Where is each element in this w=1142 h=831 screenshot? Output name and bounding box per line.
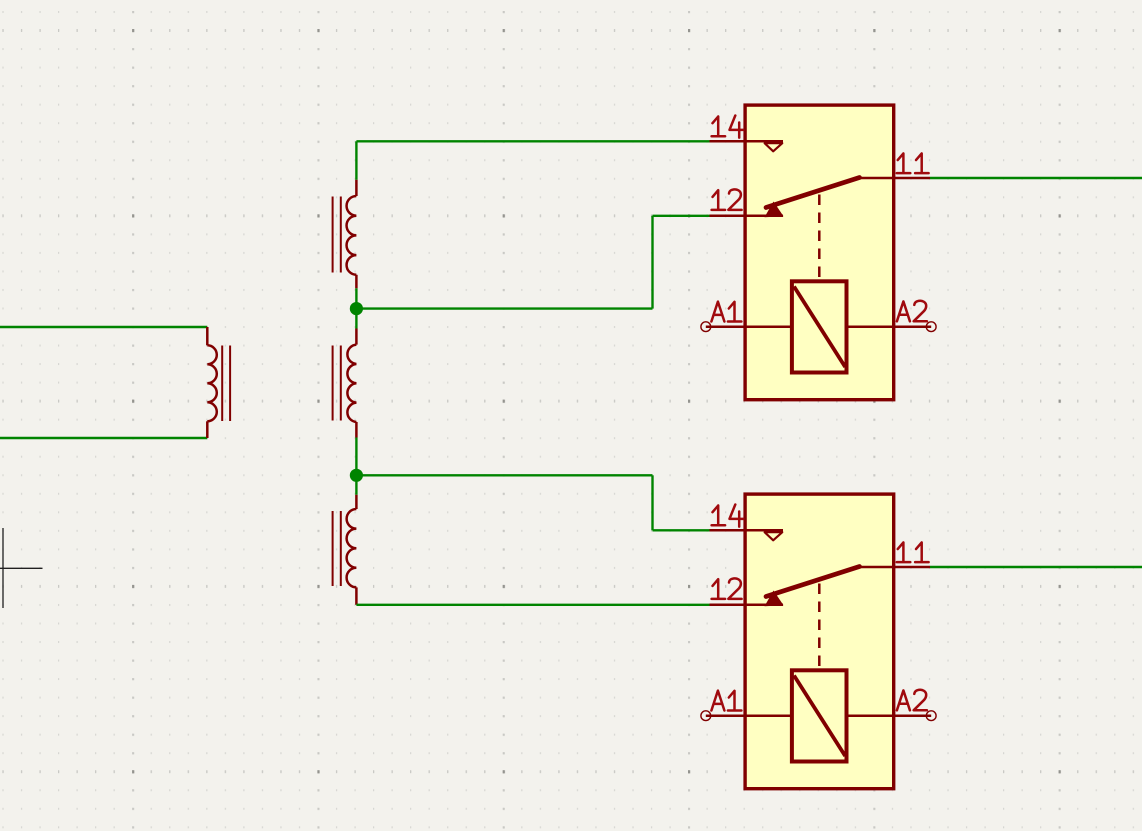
wire W1 top left to transformer T1	[0, 326, 207, 328]
wire W8 through junction J1	[355, 288, 357, 328]
wire W2 bottom left to transformer T1	[0, 437, 207, 439]
relay K2 pin A2	[847, 714, 931, 717]
coil L1 top winding	[347, 180, 357, 288]
coil L3 bottom winding	[347, 495, 357, 605]
coil L2 middle winding	[347, 329, 356, 438]
wire W5 to relay K1 pin 12	[653, 215, 710, 217]
relay K1 pin A1 circle	[701, 322, 711, 332]
relay K1 dashed actuator line	[818, 195, 821, 278]
relay K2 coil diagonal	[794, 676, 845, 757]
junction J2	[350, 469, 363, 482]
relay K2 pin name A2	[897, 690, 927, 711]
relay K2 pin A1	[706, 714, 791, 717]
coil L2 core	[333, 346, 341, 421]
wire W10 junction J2 to corner	[356, 474, 652, 476]
crosshair cursor	[0, 528, 43, 608]
relay K2 pin 11	[860, 566, 930, 569]
relay K2 pin 14	[710, 529, 784, 532]
relay K1 switch arrow	[765, 202, 784, 218]
junction J1	[350, 302, 363, 315]
wire W13 coil L3 to relay K2 pin 12	[356, 604, 709, 606]
relay K1 body	[745, 105, 894, 400]
relay K2 switch arrow	[765, 591, 784, 607]
relay K2 dashed actuator line	[818, 584, 821, 667]
relay K1 switch arm	[766, 178, 860, 208]
relay K2 pin A1 circle	[701, 711, 711, 721]
relay K2 body	[745, 494, 894, 789]
wire W11 vertical down to pin 14 level	[651, 475, 653, 530]
transformer T1 core	[222, 346, 230, 422]
wire W7 junction J1 to corner	[356, 307, 652, 309]
wire W6 vertical up to pin 12 level	[651, 216, 653, 309]
relay K1 pin 14 triangle	[765, 143, 783, 151]
coil L1 core	[333, 197, 341, 273]
relay K1 coil diagonal	[794, 287, 845, 368]
relay K1 pin number 12	[712, 189, 742, 210]
relay K2 pin A2 circle	[926, 711, 936, 721]
relay K1 pin 12	[710, 215, 784, 218]
relay K1 pin number 14	[712, 116, 744, 138]
relay K1 pin 14	[710, 140, 784, 143]
relay K2 pin 14 triangle	[765, 532, 783, 540]
transformer T1 primary winding	[207, 327, 217, 438]
relay K1 pin 11	[860, 177, 930, 180]
wire W14 relay K1 pin 11 to right edge	[930, 177, 1142, 179]
wire W9 through junction J2	[355, 438, 357, 495]
relay K2 coil box	[792, 670, 847, 761]
relay K1 pin name A1	[711, 302, 741, 322]
relay K2 pin number 12	[712, 578, 742, 599]
coil L3 core	[333, 511, 341, 586]
wire W4 down to coil L1	[355, 141, 357, 180]
wire W12 to relay K2 pin 14	[653, 529, 710, 531]
relay K1 pin A2	[847, 325, 931, 328]
relay K1 coil box	[792, 281, 847, 372]
relay K2 pin 12	[710, 604, 784, 607]
relay K1 pin number 11	[897, 153, 929, 173]
relay K1 pin name A2	[897, 301, 927, 322]
wire W3 to relay K1 pin 14	[356, 140, 709, 142]
relay K2 pin number 11	[897, 542, 929, 562]
wire W15 relay K2 pin 11 to right edge	[930, 566, 1142, 568]
relay K1 pin A1	[706, 325, 791, 328]
relay K2 pin name A1	[711, 691, 741, 711]
relay K2 pin number 14	[712, 505, 744, 527]
relay K2 switch arm	[766, 567, 860, 597]
relay K1 pin A2 circle	[926, 322, 936, 332]
